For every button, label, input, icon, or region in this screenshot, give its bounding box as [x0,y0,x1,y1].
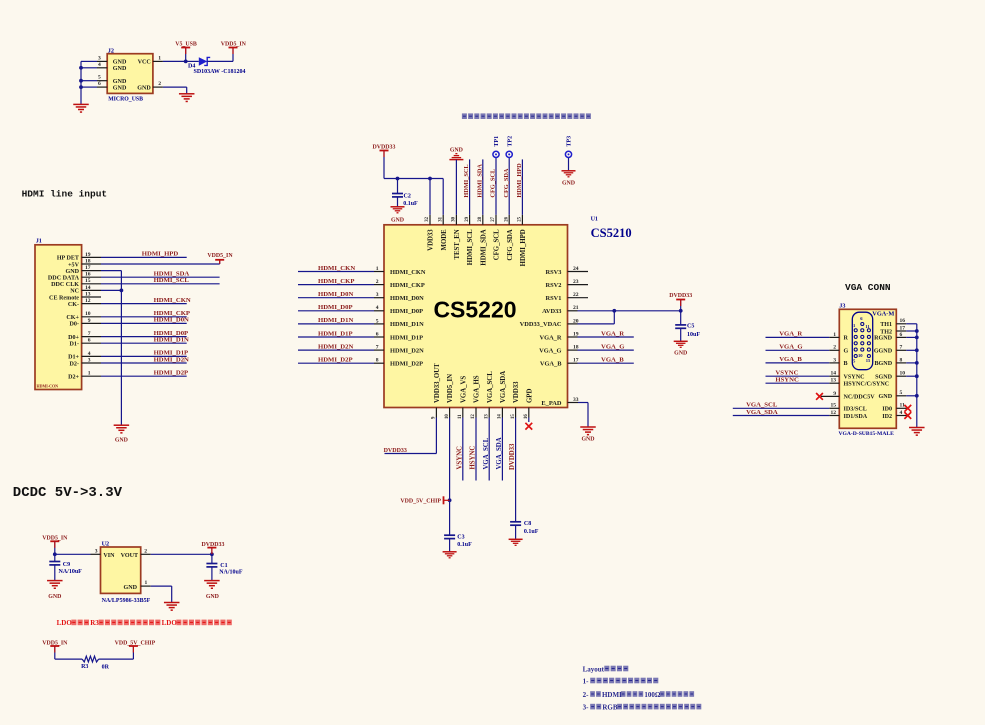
svg-text:CK-: CK- [68,302,79,308]
svg-text:CFG_SDA: CFG_SDA [507,229,514,260]
svg-text:C8: C8 [524,521,531,527]
svg-text:VDD5_IN: VDD5_IN [447,374,454,403]
svg-text:10uF: 10uF [687,332,700,338]
svg-text:TH1: TH1 [880,322,892,328]
svg-text:HDMI_CKN: HDMI_CKN [154,297,191,304]
svg-text:VGA_G: VGA_G [779,344,803,351]
svg-text:GND: GND [391,217,404,223]
svg-text:AVD33: AVD33 [542,308,561,315]
svg-text:16: 16 [85,272,91,278]
svg-text:C3: C3 [457,534,464,540]
svg-text:3: 3 [95,549,98,555]
svg-text:HDMI_D2N: HDMI_D2N [154,356,189,363]
svg-text:TH2: TH2 [880,329,892,335]
svg-text:VDD33_OUT: VDD33_OUT [434,363,441,403]
svg-text:6: 6 [88,338,91,344]
svg-text:GND: GND [113,66,127,72]
svg-text:LDO: LDO [57,619,73,627]
svg-text:GND: GND [113,79,127,85]
svg-text:2: 2 [144,549,147,555]
svg-text:GND: GND [123,585,137,591]
svg-text:HDMI_CKN: HDMI_CKN [318,265,355,272]
svg-text:VDD33: VDD33 [513,381,520,403]
svg-text:GND: GND [450,148,463,154]
svg-text:0.1uF: 0.1uF [403,201,418,207]
svg-text:18: 18 [85,258,91,264]
svg-text:V5_USB: V5_USB [175,41,197,47]
svg-text:HDMI_D2N: HDMI_D2N [390,347,424,354]
svg-text:HDMI_SDA: HDMI_SDA [476,164,483,198]
svg-text:J1: J1 [36,238,42,245]
svg-text:DDC DATA: DDC DATA [48,276,80,282]
svg-text:HSYNC: HSYNC [775,377,799,384]
svg-text:TP3: TP3 [567,136,573,147]
svg-text:VSYNC: VSYNC [456,446,463,470]
svg-text:C5: C5 [687,324,694,330]
svg-text:VGA_VS: VGA_VS [460,376,467,403]
svg-text:100Ω: 100Ω [644,691,661,699]
svg-text:HDMI_D0N: HDMI_D0N [390,295,424,302]
svg-text:HDMI_D2N: HDMI_D2N [318,343,353,350]
svg-text:GND: GND [581,436,594,442]
svg-text:GND: GND [562,181,575,187]
svg-text:HDMI_D1N: HDMI_D1N [318,317,353,324]
svg-text:5: 5 [98,75,101,81]
svg-text:HDMI_SCL: HDMI_SCL [154,277,190,284]
svg-text:HSYNC/C/SYNC: HSYNC/C/SYNC [844,382,890,388]
svg-text:VDD33: VDD33 [428,229,435,251]
svg-text:HDMI_CKN: HDMI_CKN [390,269,426,276]
svg-text:GND: GND [206,594,219,600]
svg-text:DVDD33: DVDD33 [669,293,692,299]
svg-text:GPD: GPD [526,389,533,403]
svg-text:0R: 0R [102,665,110,671]
svg-text:CE Remote: CE Remote [49,295,79,301]
svg-text:TP2: TP2 [507,136,513,147]
svg-text:HDMI_CKP: HDMI_CKP [318,278,354,285]
svg-text:HDMI_D0N: HDMI_D0N [318,291,353,298]
svg-text:6: 6 [98,81,101,87]
svg-text:VGA_G: VGA_G [539,347,561,354]
svg-text:DCDC 5V->3.3V: DCDC 5V->3.3V [13,485,123,501]
svg-text:VIN: VIN [103,553,115,559]
svg-text:HDMI_D1P: HDMI_D1P [390,334,423,341]
svg-text:ID0: ID0 [882,407,892,413]
svg-text:4: 4 [376,305,379,311]
svg-text:15: 15 [85,278,91,284]
svg-text:R: R [844,336,849,342]
svg-text:VGA_SDA: VGA_SDA [746,409,778,416]
svg-text:ID2: ID2 [882,414,892,420]
svg-text:U1: U1 [591,217,598,223]
svg-text:HDMI_D2P: HDMI_D2P [390,361,423,368]
svg-text:ID3/SCL: ID3/SCL [844,407,867,413]
svg-text:HDMI_D2P: HDMI_D2P [154,370,189,377]
svg-text:VGA_SDA: VGA_SDA [500,371,507,403]
svg-text:D2-: D2- [70,361,79,367]
svg-text:HDMI_HPD: HDMI_HPD [142,251,179,258]
svg-text:D0-: D0- [70,322,79,328]
svg-text:RGB: RGB [602,703,618,711]
svg-text:VGA-D-SUB15-MALE: VGA-D-SUB15-MALE [839,431,895,437]
svg-text:14: 14 [85,285,91,291]
svg-text:VGA_SCL: VGA_SCL [487,371,494,403]
svg-text:HDMI_D0P: HDMI_D0P [390,308,423,315]
svg-text:SGND: SGND [875,375,893,381]
svg-text:7: 7 [376,345,379,351]
svg-text:GND: GND [879,394,893,400]
svg-text:R3: R3 [81,664,88,670]
svg-text:Layout: Layout [583,665,605,673]
svg-text:19: 19 [85,252,91,258]
svg-text:HDMI_SCL: HDMI_SCL [467,229,474,265]
svg-text:9: 9 [88,318,91,324]
svg-text:C2: C2 [404,193,411,199]
svg-text:3: 3 [88,357,91,363]
svg-text:C1: C1 [220,563,227,569]
svg-text:0.1uF: 0.1uF [524,529,539,535]
svg-text:NA/10uF: NA/10uF [59,569,83,575]
svg-text:HDMI_D1P: HDMI_D1P [318,330,353,337]
svg-text:VGA_SCL: VGA_SCL [746,402,778,409]
svg-text:MODE: MODE [441,229,448,251]
svg-text:1: 1 [376,266,379,272]
svg-text:12: 12 [85,298,91,304]
svg-text:HDMI-CON: HDMI-CON [37,384,59,389]
svg-text:HDMI_HPD: HDMI_HPD [520,229,527,266]
svg-text:CFG_SCL: CFG_SCL [490,169,497,198]
svg-text:VSYNC: VSYNC [775,370,798,377]
svg-text:CFG_SCL: CFG_SCL [494,229,501,260]
svg-text:6: 6 [376,331,379,337]
svg-text:VGA_B: VGA_B [779,356,802,363]
svg-text:D1-: D1- [70,342,79,348]
svg-text:7: 7 [88,331,91,337]
svg-text:DVDD33: DVDD33 [509,443,516,470]
svg-text:HDMI_CKP: HDMI_CKP [390,282,425,289]
svg-text:3: 3 [98,55,101,61]
svg-text:CK+: CK+ [66,315,79,321]
svg-text:SD103AW -C181204: SD103AW -C181204 [194,69,246,75]
svg-text:HDMI_HPD: HDMI_HPD [516,163,523,198]
svg-text:NA/10uF: NA/10uF [219,570,243,576]
svg-text:J2: J2 [108,48,114,55]
svg-text:C9: C9 [63,562,70,568]
svg-text:8: 8 [376,358,379,364]
svg-text:D1+: D1+ [68,355,79,361]
svg-text:R3: R3 [90,619,99,627]
svg-text:E_PAD: E_PAD [541,400,562,407]
svg-text:VSYNC: VSYNC [844,375,865,381]
svg-text:MICRO_USB: MICRO_USB [108,96,143,102]
svg-text:B: B [844,361,848,367]
svg-text:3: 3 [376,292,379,298]
svg-text:11: 11 [865,324,870,329]
svg-text:VGA_SCL: VGA_SCL [483,437,490,469]
svg-text:VGA_B: VGA_B [601,357,624,364]
svg-text:17: 17 [85,265,91,271]
svg-text:HDMI line input: HDMI line input [22,189,108,200]
svg-text:VDD_5V_CHIP: VDD_5V_CHIP [115,641,156,647]
svg-text:GND: GND [113,60,127,66]
svg-text:10: 10 [858,353,863,358]
svg-text:HDMI_D0N: HDMI_D0N [154,317,189,324]
svg-text:BGND: BGND [874,361,892,367]
svg-text:VGA_R: VGA_R [601,330,624,337]
svg-text:DVDD33: DVDD33 [384,448,407,454]
svg-text:HDMI_D0P: HDMI_D0P [318,304,353,311]
svg-text:CFG_SDA: CFG_SDA [503,168,510,197]
svg-text:RSV1: RSV1 [546,295,562,302]
svg-text:TEST_EN: TEST_EN [454,229,461,259]
svg-text:NC: NC [70,289,79,295]
svg-text:GND: GND [137,85,151,91]
svg-text:GND: GND [674,351,687,357]
svg-text:3-: 3- [583,703,590,711]
svg-text:CS5210: CS5210 [591,226,632,240]
svg-text:1: 1 [158,55,161,61]
svg-text:+5V: +5V [68,262,80,268]
svg-text:GND: GND [65,269,79,275]
svg-text:4: 4 [98,62,101,68]
svg-text:HDMI_SDA: HDMI_SDA [480,229,487,265]
svg-text:GND: GND [115,438,128,444]
svg-text:2-: 2- [583,691,590,699]
svg-text:TP1: TP1 [494,136,500,147]
svg-text:HSYNC: HSYNC [470,446,477,470]
svg-text:VOUT: VOUT [121,553,138,559]
svg-text:RSV3: RSV3 [546,269,562,276]
svg-text:2: 2 [158,81,161,87]
svg-text:VDD5_IN: VDD5_IN [207,253,233,259]
svg-text:DDC CLK: DDC CLK [51,282,79,288]
svg-text:15: 15 [866,358,871,363]
svg-text:1: 1 [88,371,91,377]
svg-text:HDMI_D2P: HDMI_D2P [318,357,353,364]
svg-text:VDD_5V_CHIP: VDD_5V_CHIP [400,498,441,504]
svg-text:2: 2 [376,279,379,285]
svg-text:GND: GND [113,85,127,91]
svg-text:VGA CONN: VGA CONN [845,282,891,293]
svg-text:HP DET: HP DET [57,256,79,262]
svg-text:NC/DDC5V: NC/DDC5V [844,395,876,401]
svg-text:U2: U2 [102,541,110,548]
svg-text:NA/LP5986-33B5F: NA/LP5986-33B5F [102,598,151,604]
svg-text:ID1/SDA: ID1/SDA [844,414,868,420]
svg-text:HDMI_D1N: HDMI_D1N [154,337,189,344]
svg-text:VGA_HS: VGA_HS [474,375,481,403]
svg-text:VDD5_IN: VDD5_IN [221,41,247,47]
svg-text:1: 1 [145,580,148,586]
svg-text:HDMI: HDMI [602,691,622,699]
svg-text:VDD33_VDAC: VDD33_VDAC [520,321,562,328]
svg-text:LDO: LDO [162,619,178,627]
svg-text:RSV2: RSV2 [546,282,562,289]
svg-text:4: 4 [88,351,91,357]
svg-text:VCC: VCC [138,60,151,66]
svg-text:10: 10 [85,311,91,317]
svg-text:HDMI_SCL: HDMI_SCL [463,164,470,197]
svg-text:VGA-M: VGA-M [872,311,894,318]
svg-text:VGA_R: VGA_R [779,331,802,338]
svg-text:5: 5 [376,318,379,324]
svg-text:0.1uF: 0.1uF [457,542,472,548]
svg-text:D0+: D0+ [68,335,79,341]
svg-text:VGA_G: VGA_G [601,343,625,350]
svg-text:GND: GND [48,594,61,600]
svg-text:RGND: RGND [874,336,893,342]
svg-text:13: 13 [85,291,91,297]
svg-text:VGA_R: VGA_R [539,334,561,341]
svg-text:G: G [844,349,849,355]
svg-text:VGA_SDA: VGA_SDA [496,437,503,469]
svg-text:D2+: D2+ [68,375,79,381]
svg-text:HDMI_D1N: HDMI_D1N [390,321,424,328]
svg-text:CS5220: CS5220 [433,297,516,323]
svg-text:1-: 1- [583,677,590,685]
svg-text:VGA_B: VGA_B [540,361,562,368]
svg-text:GGND: GGND [874,349,893,355]
svg-text:J3: J3 [839,303,845,310]
